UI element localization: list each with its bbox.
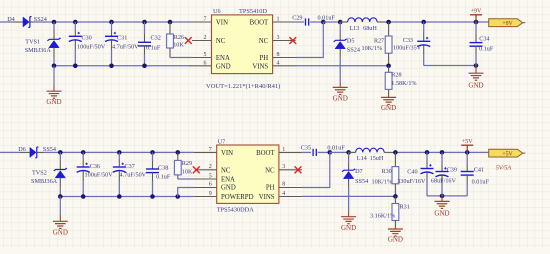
svg-text:R30: R30	[382, 169, 392, 175]
svg-text:C40: C40	[407, 169, 417, 176]
capacitor C39 68uF/16V	[440, 150, 445, 155]
wire PH node to L14	[330, 151, 349, 153]
diode D7 SS54	[346, 150, 351, 155]
svg-text:U7: U7	[218, 139, 226, 146]
svg-text:D5: D5	[347, 38, 355, 45]
svg-text:GND: GND	[221, 185, 236, 192]
pin 7 stub U7	[194, 151, 217, 153]
wire top rail to U6 VIN	[34, 21, 189, 23]
svg-text:NC: NC	[265, 167, 275, 174]
capacitor C32 0.1uF	[142, 20, 147, 25]
svg-text:10K/1%: 10K/1%	[362, 45, 383, 52]
ground C34	[475, 66, 477, 74]
svg-text:10K: 10K	[182, 168, 193, 175]
svg-text:9: 9	[209, 191, 212, 197]
resistor R29 10K	[176, 150, 181, 155]
svg-text:VINS: VINS	[259, 194, 275, 201]
svg-text:ENA: ENA	[221, 176, 235, 183]
capacitor C41 0.01uF	[465, 150, 470, 155]
pin 4 VINS stub U6	[273, 65, 296, 67]
ground R31	[388, 229, 403, 236]
svg-text:L14: L14	[357, 155, 367, 162]
svg-text:8: 8	[282, 182, 285, 188]
svg-text:POWERPD: POWERPD	[221, 194, 254, 201]
capacitor C36 100uF/50V	[81, 150, 86, 155]
svg-text:2: 2	[204, 35, 207, 41]
capacitor C38 0.1uF	[150, 150, 155, 155]
gnd rail top circuit	[54, 65, 189, 67]
svg-text:+9V: +9V	[502, 21, 513, 27]
svg-text:TVS1: TVS1	[25, 39, 40, 46]
pin 4 VINS stub U7	[279, 196, 302, 198]
svg-text:R31: R31	[400, 204, 410, 211]
svg-text:D4: D4	[7, 16, 15, 23]
pin 6 stub U6	[189, 65, 212, 67]
svg-text:GND: GND	[388, 236, 403, 244]
no-connect X pin 2 U7	[197, 169, 217, 171]
IC U6 TPS5410D regulator body	[212, 15, 273, 74]
wire L13 to output node	[389, 21, 489, 23]
svg-text:0.01uF: 0.01uF	[318, 15, 336, 22]
wire U7 GND pin to gnd rail	[175, 194, 180, 199]
svg-text:VOUT=1.221*(1+R40/R41): VOUT=1.221*(1+R40/R41)	[206, 83, 280, 90]
svg-text:NC: NC	[259, 38, 269, 45]
svg-text:5: 5	[209, 173, 212, 179]
ground TVS1	[53, 66, 55, 84]
svg-text:L13: L13	[349, 25, 359, 32]
svg-text:6: 6	[209, 182, 212, 188]
wire BOOT cap to PH	[321, 20, 326, 25]
svg-text:SMBJ36A: SMBJ36A	[31, 178, 58, 185]
svg-text:TPS5410D: TPS5410D	[239, 8, 267, 15]
svg-text:4.7uF/50V: 4.7uF/50V	[120, 172, 147, 179]
resistor R27 10K/1%	[386, 20, 391, 25]
svg-text:15uH: 15uH	[370, 155, 384, 162]
svg-text:C33: C33	[403, 37, 413, 44]
inductor L13 68uH	[340, 21, 347, 23]
svg-text:68uH: 68uH	[363, 25, 377, 32]
svg-text:TVS2: TVS2	[32, 170, 47, 177]
wire VINS feedback	[302, 195, 395, 197]
no-connect X pin 3 U6	[273, 40, 296, 42]
svg-text:1.58K/1%: 1.58K/1%	[391, 80, 416, 87]
ground D7	[341, 217, 356, 224]
no-connect X pin 3 U7	[279, 169, 302, 171]
svg-text:4.7uF/50V: 4.7uF/50V	[112, 44, 139, 51]
diode D5 SS24	[338, 20, 343, 25]
wire bottom rail to U7 VIN	[44, 151, 193, 153]
capacitor C34 0.1uF	[474, 20, 479, 25]
net flag +9V	[489, 19, 523, 27]
capacitor C35 0.01uF bootstrap	[302, 151, 311, 153]
inductor L14 15uH	[349, 151, 356, 153]
svg-text:0.1uF: 0.1uF	[146, 44, 161, 51]
svg-text:3.16K/1%: 3.16K/1%	[370, 213, 395, 220]
svg-text:0.1uF: 0.1uF	[156, 174, 171, 181]
capacitor C30 100uF/50V	[73, 20, 78, 25]
pin 6 stub U7	[194, 187, 217, 189]
pin 1 BOOT stub U7	[279, 151, 302, 153]
svg-text:C38: C38	[158, 165, 168, 172]
svg-text:R27: R27	[374, 39, 384, 45]
svg-text:ENA: ENA	[216, 55, 230, 62]
svg-text:7: 7	[204, 17, 207, 23]
no-connect X pin 2 U6	[192, 40, 212, 42]
svg-text:5: 5	[204, 52, 207, 58]
svg-text:NC: NC	[221, 167, 231, 174]
svg-text:+9V: +9V	[471, 9, 482, 15]
svg-text:2: 2	[209, 164, 212, 170]
diode D4 SS24	[14, 21, 23, 23]
svg-text:68uF/16V: 68uF/16V	[431, 178, 457, 185]
svg-text:7: 7	[209, 147, 212, 153]
svg-text:C35: C35	[301, 145, 311, 152]
gnd rail bottom circuit	[60, 196, 193, 198]
svg-text:100uF/50V: 100uF/50V	[77, 44, 106, 51]
capacitor C33 100uF/35V	[421, 20, 426, 25]
svg-text:5V/5A: 5V/5A	[496, 164, 512, 171]
svg-text:C36: C36	[90, 163, 100, 170]
TVS1 SMBJ36A	[52, 20, 57, 25]
wire R29 to ENA pin 5	[178, 178, 196, 180]
svg-text:C39: C39	[447, 167, 457, 174]
svg-text:PH: PH	[259, 55, 268, 62]
capacitor C31 4.7uF/50V	[109, 20, 114, 25]
pin 1 BOOT stub U6	[273, 21, 296, 23]
wire BOOT cap to PH	[328, 150, 333, 155]
svg-text:SS24: SS24	[347, 47, 360, 54]
svg-text:C41: C41	[474, 167, 484, 174]
svg-text:C30: C30	[81, 35, 91, 42]
resistor R28 1.58K/1%	[388, 66, 390, 73]
svg-text:GND: GND	[468, 81, 483, 89]
pin 8 PH stub U7	[279, 187, 302, 189]
svg-text:GND: GND	[46, 98, 61, 106]
svg-text:C34: C34	[479, 35, 489, 42]
capacitor C37 4.7uF/50V	[117, 150, 122, 155]
svg-text:GND: GND	[434, 209, 449, 217]
svg-text:C29: C29	[292, 15, 302, 22]
svg-text:D7: D7	[355, 168, 363, 175]
svg-text:GND: GND	[216, 63, 231, 70]
svg-text:R28: R28	[391, 72, 401, 79]
wire R26 to ENA pin 5	[170, 57, 192, 59]
svg-text:10K/1%: 10K/1%	[372, 178, 393, 185]
svg-text:TPS5430DDA: TPS5430DDA	[217, 207, 255, 214]
svg-text:GND: GND	[381, 104, 396, 112]
svg-text:VINS: VINS	[252, 63, 268, 70]
svg-text:GND: GND	[53, 228, 68, 236]
ground D5	[333, 87, 348, 94]
gnd link C40 C39 C41	[427, 195, 467, 197]
svg-text:SS54: SS54	[355, 178, 368, 185]
svg-text:GND: GND	[333, 94, 348, 102]
svg-text:C31: C31	[117, 35, 127, 42]
svg-text:0.1uF: 0.1uF	[479, 45, 494, 52]
svg-text:+5V: +5V	[502, 151, 513, 157]
gnd link C33 C34	[424, 65, 476, 67]
svg-text:SMBJ36A: SMBJ36A	[25, 47, 52, 54]
svg-text:100uF/35V: 100uF/35V	[393, 45, 422, 52]
svg-text:VIN: VIN	[221, 150, 233, 157]
ground C39	[441, 196, 443, 201]
diode D6 SS54	[20, 151, 30, 153]
svg-text:100uF/50V: 100uF/50V	[85, 172, 114, 179]
pin 9 stub U7 POWERPD	[194, 196, 217, 198]
resistor R31 3.16K/1%	[394, 196, 396, 203]
svg-text:BOOT: BOOT	[250, 19, 269, 26]
svg-text:BOOT: BOOT	[256, 150, 275, 157]
wire input rail bottom	[0, 151, 20, 153]
IC U7 TPS5430DDA regulator body	[217, 145, 279, 203]
svg-text:10K: 10K	[173, 42, 184, 49]
svg-text:VIN: VIN	[216, 19, 228, 26]
svg-text:NC: NC	[216, 38, 226, 45]
pin 8 PH stub U6	[273, 57, 296, 59]
resistor R26 10K	[168, 20, 173, 25]
wire VINS feedback	[296, 65, 389, 67]
capacitor C40 330uF/16V	[425, 150, 430, 155]
svg-text:R26: R26	[174, 34, 184, 41]
svg-text:C32: C32	[151, 35, 161, 42]
pin 7 stub U6	[189, 21, 212, 23]
svg-text:PH: PH	[266, 185, 275, 192]
svg-text:0.01uF: 0.01uF	[472, 178, 490, 185]
net flag +5V	[489, 149, 523, 157]
svg-text:GND: GND	[341, 224, 356, 232]
TVS2 SMBJ36A	[58, 150, 63, 155]
power +9V	[475, 15, 477, 22]
resistor R30 10K/1%	[393, 150, 398, 155]
svg-text:330uF/16V: 330uF/16V	[397, 178, 426, 185]
ground R28	[381, 97, 396, 104]
svg-text:6: 6	[204, 60, 207, 66]
wire L14 to output node	[395, 151, 489, 153]
svg-text:C37: C37	[125, 163, 135, 170]
svg-text:+5V: +5V	[462, 139, 473, 145]
svg-text:U6: U6	[213, 8, 221, 15]
wire input rail top	[0, 21, 14, 23]
svg-text:R29: R29	[182, 160, 192, 167]
wire PH node to L13	[323, 21, 340, 23]
capacitor C29 0.01uF bootstrap	[296, 21, 304, 23]
svg-text:D6: D6	[18, 146, 26, 153]
power +5V	[466, 145, 468, 152]
ground TVS2	[59, 197, 61, 215]
